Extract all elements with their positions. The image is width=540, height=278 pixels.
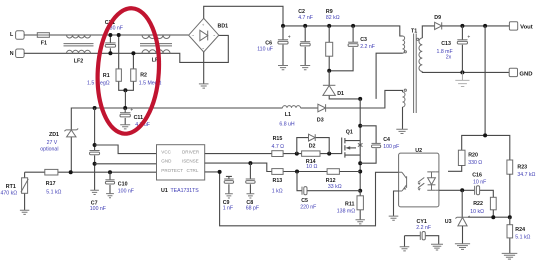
junction VCC pin tap [93, 143, 97, 147]
inductor L1 [283, 106, 301, 108]
capacitor C9 [224, 179, 233, 183]
wire C13 leads [461, 26, 463, 73]
resistor R13 [272, 169, 283, 175]
junction VCC column [93, 106, 97, 110]
wire RT1 leads [24, 172, 26, 210]
svg-text:LF2: LF2 [74, 58, 83, 64]
wire R20 to optocoupler anode [448, 166, 462, 172]
wire ctrl to optocoupler [205, 172, 399, 226]
wire L line [24, 34, 190, 36]
junction switch node top [358, 97, 362, 101]
svg-text:4.7 Ω: 4.7 Ω [272, 144, 285, 150]
wire aux line through D3 to T1 aux winding [301, 90, 403, 108]
wire CY1 [405, 236, 439, 245]
wire ZD1 to protect line [70, 137, 72, 172]
wire R1R2 to VCC line [124, 90, 126, 108]
terminal L [16, 31, 25, 40]
svg-text:5.1 kΩ: 5.1 kΩ [515, 234, 530, 240]
terminal N [16, 49, 25, 58]
diode D2 [309, 134, 316, 141]
svg-text:D2: D2 [309, 144, 316, 150]
optocoupler U2 [399, 153, 439, 207]
inductor LF2 winding lower [67, 50, 91, 53]
wire bridge minus to ground [203, 52, 205, 84]
wire D2 bypass [297, 138, 329, 154]
svg-text:GND: GND [161, 159, 172, 164]
wire R22 bottom [492, 210, 494, 217]
ground C11 [120, 125, 130, 129]
resistor R11 [357, 196, 363, 210]
inductor LF2 winding upper [67, 35, 91, 38]
svg-text:68 pF: 68 pF [246, 206, 259, 212]
svg-text:R15: R15 [273, 136, 283, 142]
svg-text:VCC: VCC [161, 149, 171, 154]
svg-text:110 uF: 110 uF [257, 47, 273, 53]
wire R9 leads [328, 26, 330, 71]
svg-text:T1: T1 [411, 29, 417, 35]
junction GND pin tap [93, 162, 97, 166]
fuse F1 element line [37, 34, 49, 36]
resistor R1 [116, 69, 121, 81]
junction R1 on L [117, 33, 121, 37]
ground C6 [278, 66, 288, 70]
wire feedback bus [462, 135, 510, 160]
junction C13 Vout [460, 24, 464, 28]
wire C8 leads [249, 163, 251, 194]
ground bridge BD1 [199, 84, 209, 88]
junction C5 R11 [358, 189, 362, 193]
thermistor RT1 [21, 178, 28, 194]
svg-text:R11: R11 [345, 201, 354, 207]
capacitor C5 [302, 187, 307, 195]
resistor R24 [507, 225, 513, 238]
diode D1 [323, 85, 336, 95]
ground aux winding [396, 129, 407, 133]
svg-text:DRIVER: DRIVER [182, 149, 200, 154]
node aux phase dot [404, 89, 406, 91]
svg-text:220 nF: 220 nF [300, 205, 316, 211]
wire CY1 left leg [404, 236, 406, 247]
svg-text:R13: R13 [273, 178, 283, 184]
capacitor C8 [246, 179, 255, 183]
wire U3 ref to divider [468, 216, 510, 218]
svg-text:L1: L1 [285, 112, 291, 118]
terminal Vout [509, 22, 517, 30]
wire U3 top [461, 190, 463, 217]
svg-text:BD1: BD1 [218, 24, 229, 30]
wire N line to bridge [24, 35, 228, 62]
svg-text:GND: GND [519, 72, 532, 78]
svg-text:N: N [10, 51, 14, 57]
transistor Q1 MOSFET [345, 138, 363, 158]
svg-text:TEA1731TS: TEA1731TS [171, 188, 200, 194]
wire CX1 leads [109, 35, 111, 53]
svg-text:CY1: CY1 [417, 219, 427, 225]
svg-text:1 kΩ: 1 kΩ [272, 189, 283, 195]
ground RT1 [20, 210, 29, 214]
svg-text:C10: C10 [118, 182, 128, 188]
wire U2 emitter to ground [394, 191, 399, 216]
junction R9 C3 D1 [327, 69, 331, 73]
svg-text:138 mΩ: 138 mΩ [337, 208, 355, 214]
svg-text:100 nF: 100 nF [118, 189, 134, 195]
transformer T1 secondary winding [419, 38, 422, 72]
transformer T1 core [414, 34, 417, 114]
junction C13 GND [460, 70, 464, 74]
wire D1 leads [329, 71, 360, 99]
junction R9 bus [327, 24, 331, 28]
wire C4 loop [360, 126, 376, 163]
svg-text:C11: C11 [134, 115, 143, 121]
resistor R12 [327, 169, 339, 175]
capacitor CY1 [420, 232, 425, 240]
wire C6 leads [282, 26, 284, 66]
terminal GND [509, 68, 517, 76]
shunt regulator U3 [455, 216, 469, 226]
svg-text:ISENSE: ISENSE [182, 159, 199, 164]
earth ground CY1 [431, 244, 443, 250]
wire R11 leads [359, 191, 361, 220]
junction R23 R24 [508, 215, 512, 219]
earth ground R24 [502, 253, 518, 259]
junction C10 protect [108, 170, 112, 174]
resistor R23 [507, 160, 513, 174]
svg-text:R20: R20 [468, 152, 478, 158]
svg-text:27 V: 27 V [47, 140, 58, 146]
wire R1 R2 [119, 35, 134, 90]
op-amp U1 TEA1731TS controller box [157, 145, 205, 180]
svg-text:R1: R1 [103, 73, 110, 79]
junction Q1 drain C4 [358, 124, 362, 128]
ground C7 column [90, 190, 99, 194]
junction sense R12 [358, 170, 362, 174]
svg-text:C6: C6 [265, 41, 272, 47]
capacitor C2 [300, 42, 310, 46]
svg-text:10 kΩ: 10 kΩ [470, 209, 484, 215]
svg-text:5.1 kΩ: 5.1 kΩ [46, 190, 61, 196]
wire DC bus to T1 primary [283, 26, 403, 36]
svg-text:2.2 nF: 2.2 nF [360, 44, 375, 50]
svg-text:F1: F1 [41, 40, 47, 46]
junction C2 bus [303, 24, 307, 28]
wire Vout rail [442, 25, 510, 27]
junction CX1 on N [108, 51, 112, 55]
node primary phase dot [404, 51, 406, 53]
resistor R14 [302, 151, 320, 156]
svg-text:R23: R23 [517, 164, 527, 170]
svg-text:R17: R17 [46, 181, 56, 187]
svg-text:optional: optional [40, 147, 58, 153]
junction C11 [123, 106, 127, 110]
diode D9 [435, 22, 442, 29]
svg-text:Q1: Q1 [346, 129, 353, 135]
wire U2 cathode C16 R22 [439, 190, 493, 197]
capacitor C16 [475, 186, 480, 195]
svg-text:R2: R2 [140, 72, 147, 78]
wire U3 anode to earth [462, 226, 464, 244]
junction R2 on N [131, 51, 135, 55]
svg-text:6.8 uH: 6.8 uH [279, 122, 295, 128]
zener diode ZD1 [64, 129, 78, 137]
diode D3 [318, 104, 326, 112]
svg-text:100 nF: 100 nF [90, 206, 106, 212]
svg-text:C13: C13 [441, 41, 451, 47]
wire secondary top to D9 [422, 26, 434, 38]
junction feedback Vout [483, 24, 487, 28]
svg-text:1 nF: 1 nF [223, 205, 233, 211]
wire R23 to divider node [509, 174, 511, 217]
wire C11 leads [124, 108, 126, 125]
capacitor VCC decoupling [90, 151, 100, 155]
wire aux winding to ground [402, 107, 404, 129]
svg-text:2.2 nF: 2.2 nF [416, 225, 431, 231]
wire C2 leads [304, 26, 306, 66]
svg-text:34.7 kΩ: 34.7 kΩ [517, 172, 535, 178]
wire drain source column [359, 99, 361, 191]
svg-text:C3: C3 [360, 37, 367, 43]
svg-text:82 kΩ: 82 kΩ [326, 15, 340, 21]
resistor R22 [490, 197, 496, 210]
wire isense R13 R12 [205, 163, 361, 171]
svg-text:U1: U1 [161, 188, 168, 194]
wire C9 leads [226, 176, 232, 193]
svg-text:U3: U3 [445, 219, 452, 225]
svg-text:470 kΩ: 470 kΩ [1, 191, 18, 197]
svg-text:330 Ω: 330 Ω [468, 160, 482, 166]
svg-text:Vout: Vout [520, 24, 533, 30]
svg-text:100 pF: 100 pF [383, 144, 399, 150]
junction C3 bus [351, 24, 355, 28]
capacitor C4 [372, 143, 381, 147]
capacitor C11 electrolytic [120, 107, 133, 117]
svg-text:R12: R12 [326, 178, 336, 184]
wire driver to gate [205, 138, 342, 154]
junction D2 left [295, 152, 299, 156]
bridge rectifier BD1 [189, 18, 219, 52]
svg-text:C16: C16 [472, 173, 482, 179]
svg-text:+: + [130, 107, 133, 113]
svg-text:PROTECT: PROTECT [161, 168, 183, 173]
wire VCC rail left [71, 108, 282, 130]
junction CX1 on L [108, 33, 112, 37]
resistor R15 [272, 151, 283, 157]
fuse F1 [37, 33, 49, 38]
svg-text:D3: D3 [317, 118, 324, 124]
wire GND rail [422, 71, 509, 74]
junction C6 bus [281, 24, 285, 28]
capacitor C3 [348, 42, 358, 46]
earth ground secondary [455, 80, 469, 86]
svg-text:33 kΩ: 33 kΩ [328, 184, 342, 190]
wire to GND pin [95, 163, 157, 165]
svg-text:RT1: RT1 [6, 184, 16, 190]
svg-text:+: + [467, 34, 470, 40]
svg-text:ZD1: ZD1 [49, 132, 59, 138]
junction R1 R2 join [123, 88, 127, 92]
resistor R2 [131, 69, 136, 81]
resistor R17 [45, 169, 58, 175]
inductor LF1 winding upper [142, 35, 170, 39]
inductor LF2 core [64, 44, 94, 46]
svg-text:+: + [288, 34, 291, 40]
svg-text:C5: C5 [301, 198, 308, 204]
junction U3 cathode [460, 188, 464, 192]
annotation red ellipse [94, 6, 163, 135]
svg-text:D1: D1 [337, 91, 344, 97]
svg-text:U2: U2 [415, 148, 422, 154]
ground C10 [106, 194, 114, 198]
wire C5 branch [297, 172, 360, 191]
junction feedback bus [483, 133, 487, 137]
ground C9 [225, 194, 233, 198]
capacitor C10 [105, 180, 114, 184]
wire primary bottom to switch node [376, 53, 402, 99]
svg-text:2x: 2x [446, 54, 452, 60]
ground U2 [389, 216, 399, 220]
ground C8 [247, 194, 255, 198]
node secondary phase dot [417, 38, 419, 40]
resistor R20 [458, 150, 465, 165]
earth ground U3 [455, 244, 470, 250]
junction R22 divider [491, 215, 495, 219]
capacitor C13 electrolytic [457, 34, 470, 44]
transformer T1 aux winding [403, 92, 406, 107]
junction ctrl [218, 170, 222, 174]
junction C4 bottom [358, 161, 362, 165]
svg-text:CTRL: CTRL [187, 168, 199, 173]
junction ZD1 protect [69, 170, 73, 174]
wire VCC column [94, 108, 96, 190]
wire GND rail to earth [461, 72, 463, 80]
inductor LF1 winding lower [142, 50, 170, 53]
inductor LF1 core [140, 44, 172, 46]
junction R13 R12 C5 [295, 170, 299, 174]
junction C8 isense [248, 161, 252, 165]
wire C10 leads [109, 172, 111, 193]
svg-text:R24: R24 [515, 227, 525, 233]
wire to VCC pin [95, 145, 157, 154]
svg-text:10 nF: 10 nF [473, 179, 486, 185]
ground C2 [300, 66, 310, 70]
wire bridge plus to DC bus [204, 6, 283, 26]
ground R11 [356, 220, 365, 224]
svg-text:10 Ω: 10 Ω [306, 164, 317, 170]
wire C3 leads [329, 26, 353, 71]
transformer T1 primary winding [403, 36, 405, 53]
svg-text:R22: R22 [473, 201, 483, 207]
ground CY1 primary [400, 247, 410, 251]
svg-text:C4: C4 [383, 137, 390, 143]
capacitor C6 electrolytic [278, 34, 291, 44]
wire R24 leads [509, 217, 511, 253]
junction D2 right [327, 152, 331, 156]
svg-text:D9: D9 [434, 15, 441, 21]
resistor R9 [326, 42, 333, 56]
wire protect line [25, 171, 157, 173]
svg-text:4.7 nF: 4.7 nF [298, 15, 313, 21]
wire Vout to feedback bus [484, 26, 486, 135]
capacitor CX1 [105, 43, 115, 47]
